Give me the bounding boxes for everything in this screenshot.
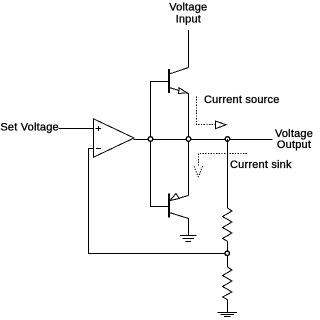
label: Voltage Output	[275, 128, 313, 151]
wire: feedback node to R2	[227, 256, 229, 267]
ground under Q2	[180, 236, 197, 242]
resistor R1	[223, 208, 232, 241]
annotation: current source arrowhead	[215, 121, 226, 129]
node: emitter rail junction	[186, 137, 190, 141]
transistor Q2 base bar	[168, 194, 170, 218]
label: Voltage Input	[169, 2, 207, 26]
svg-text:Current source: Current source	[204, 94, 280, 106]
transistor Q2 emitter arrowhead	[170, 194, 179, 201]
svg-text:Voltage: Voltage	[169, 2, 207, 14]
transistor Q2 collector wire	[169, 213, 188, 236]
wire: R2 to ground	[227, 300, 229, 312]
annotation: current sink arrow leader	[199, 154, 248, 166]
op-amp plus input symbol	[96, 126, 101, 131]
transistor Q2 base wire	[150, 206, 168, 208]
wire: base rail (op-amp output to bases)	[151, 82, 169, 207]
resistor R2	[223, 267, 232, 300]
transistor Q2 emitter wire	[170, 196, 189, 201]
svg-text:Current sink: Current sink	[230, 159, 292, 171]
wire: emitter rail (Q1 to Q2)	[188, 94, 190, 196]
svg-text:Input: Input	[176, 14, 201, 26]
ground (bottom)	[218, 313, 238, 317]
annotation: current sink arrowhead	[194, 166, 203, 177]
wire: set voltage input	[59, 128, 94, 130]
svg-text:Set Voltage: Set Voltage	[0, 122, 58, 134]
transistor Q1 emitter arrowhead	[179, 88, 187, 94]
node: output terminal	[225, 137, 229, 141]
op-amp U1 triangle	[94, 119, 135, 157]
op-amp minus input symbol	[96, 148, 101, 150]
transistor Q1 emitter wire	[169, 88, 188, 94]
transistor Q1 base bar	[168, 69, 170, 93]
transistor Q1 base wire	[150, 81, 168, 83]
wire: op-amp output	[134, 139, 273, 141]
node: feedback junction	[225, 251, 229, 255]
annotation: current source arrow leader	[197, 97, 216, 125]
wire: voltage input drop	[188, 30, 190, 68]
wire: R1 to feedback node	[227, 241, 229, 251]
wire: inverting input feedback	[89, 149, 225, 254]
wire: output node to divider	[227, 139, 229, 208]
transistor Q1 collector wire	[169, 68, 188, 75]
node: op-amp output junction	[148, 137, 153, 142]
svg-text:Output: Output	[277, 139, 311, 151]
